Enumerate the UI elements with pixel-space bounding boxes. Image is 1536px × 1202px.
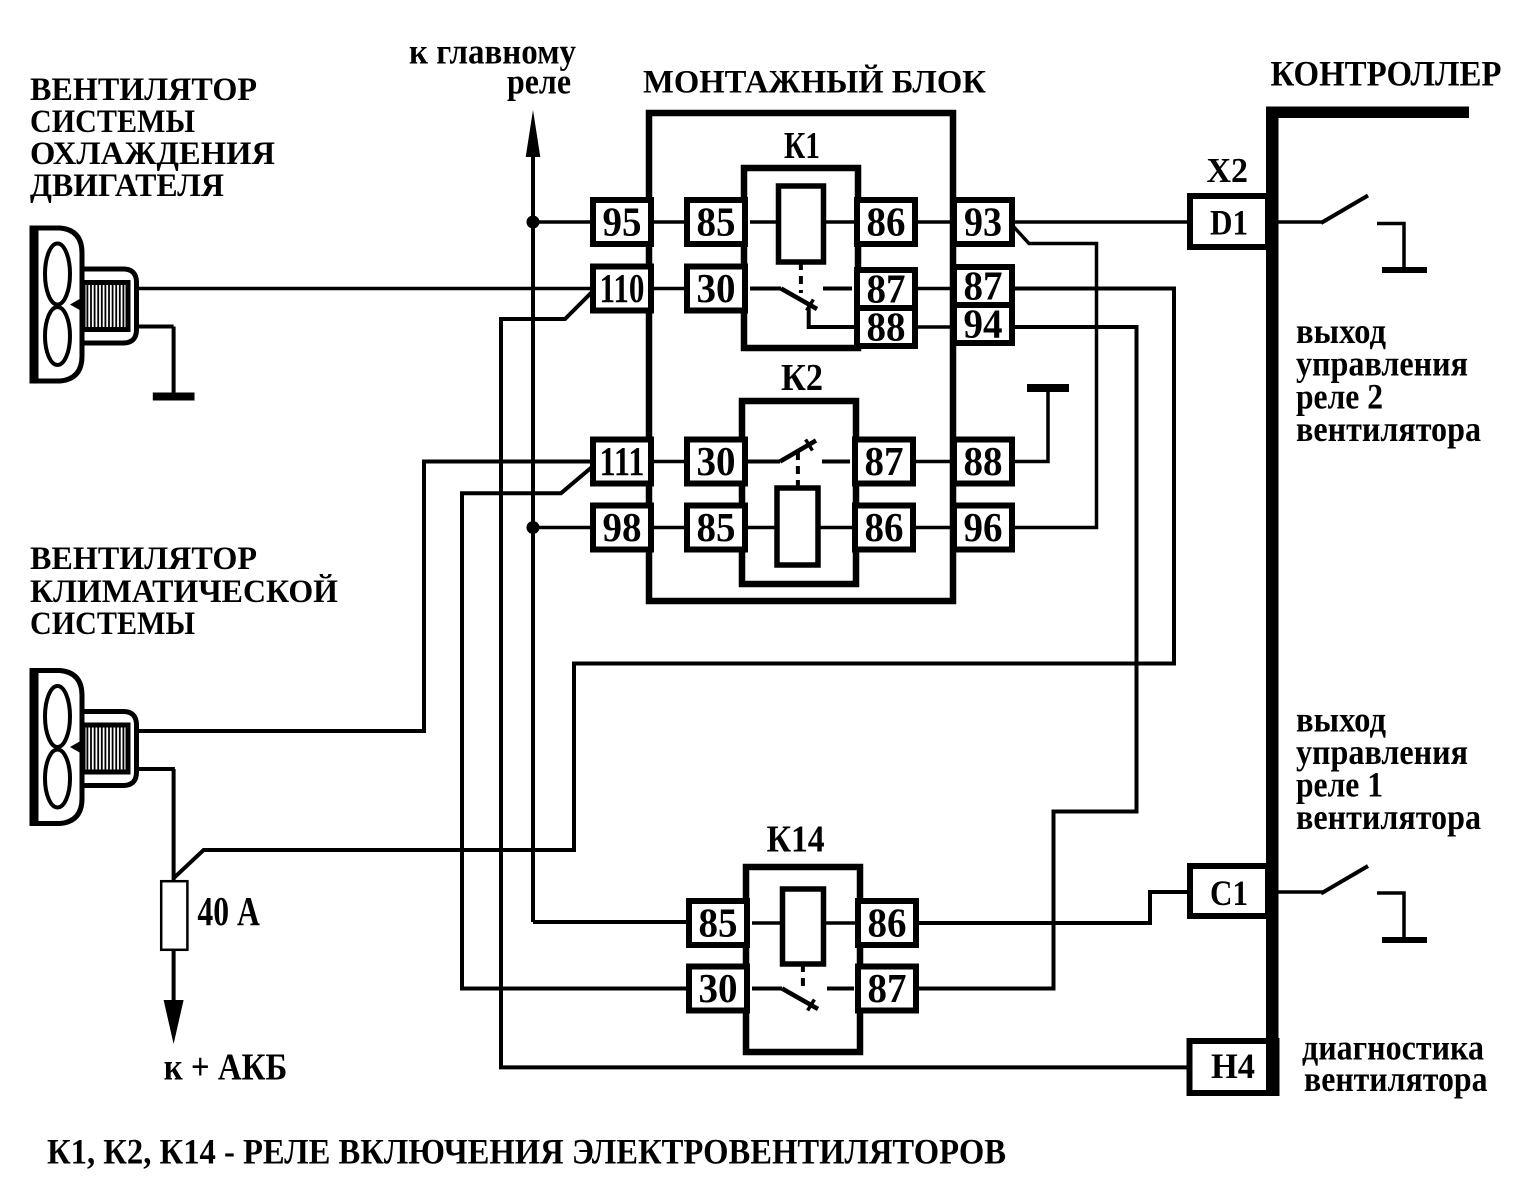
svg-text:ВЕНТИЛЯТОР: ВЕНТИЛЯТОР <box>30 541 257 577</box>
wire: K14 fixed contact 87 stub <box>827 987 858 991</box>
controller D1 switch blade <box>1321 196 1368 224</box>
K1 blade tick <box>807 300 814 311</box>
wire: 110 to 30 (K1) <box>650 287 688 291</box>
K1 coil row inside <box>750 220 858 224</box>
svg-text:вентилятора: вентилятора <box>1304 1059 1488 1099</box>
wire: pin 110 to controller H4 (fan diagnostics) <box>501 291 1192 1067</box>
wire: 87 to 87 outer <box>914 287 955 291</box>
K14 pin 86 <box>858 899 916 945</box>
connector pin C1 <box>1190 866 1268 916</box>
K2 pin 86 <box>855 504 913 550</box>
svg-text:К1, К2, К14 - РЕЛЕ ВКЛЮЧЕНИЯ Э: К1, К2, К14 - РЕЛЕ ВКЛЮЧЕНИЯ ЭЛЕКТРОВЕНТ… <box>47 1132 1006 1172</box>
svg-text:МОНТАЖНЫЙ БЛОК: МОНТАЖНЫЙ БЛОК <box>643 64 986 101</box>
K14 pin 30 <box>689 965 747 1011</box>
wire: 95 to 85 (K1) <box>650 220 688 224</box>
arrowhead to main relay <box>526 110 541 157</box>
wire: 93 to 96 link <box>1011 226 1097 528</box>
pin 110 <box>593 265 651 311</box>
svg-text:реле: реле <box>507 62 571 102</box>
K1 pin 87 <box>857 265 915 311</box>
K2 switch common inside <box>748 460 780 464</box>
wire: main feed to K14 pin85 <box>533 920 690 924</box>
wire: 88 outer to ground <box>1011 392 1048 462</box>
svg-text:96: 96 <box>964 504 1003 550</box>
K14 switch blade <box>782 989 818 1010</box>
svg-text:87: 87 <box>865 438 904 484</box>
wire: feed junction to pin 95 <box>533 220 594 224</box>
montage block (МОНТАЖНЫЙ БЛОК) outline <box>649 113 953 601</box>
svg-text:вентилятора: вентилятора <box>1296 409 1481 449</box>
K14 coil <box>783 889 824 964</box>
svg-text:85: 85 <box>697 198 736 244</box>
svg-text:93: 93 <box>964 198 1002 244</box>
svg-text:X2: X2 <box>1207 152 1249 190</box>
svg-text:88: 88 <box>964 438 1003 484</box>
wire: 98 to 85 (K2) <box>650 526 688 530</box>
svg-text:88: 88 <box>867 303 906 349</box>
svg-text:30: 30 <box>699 965 738 1011</box>
svg-text:К1: К1 <box>784 125 820 167</box>
K2 coil row inside <box>748 526 856 530</box>
K14 switch common inside <box>752 987 782 991</box>
svg-text:85: 85 <box>699 899 738 945</box>
contact bar at D1 switch <box>1382 267 1427 273</box>
wire: 94 to K14 pin 87 <box>916 327 1137 989</box>
svg-text:85: 85 <box>697 504 736 550</box>
wire: K14 86 to controller C1 <box>916 892 1192 923</box>
pin 111 <box>593 438 651 484</box>
svg-text:СИСТЕМЫ: СИСТЕМЫ <box>30 606 195 642</box>
junction dot at 95 feed <box>527 216 540 229</box>
K14 coil row inside <box>752 921 858 925</box>
controller C1 switch contact <box>1377 893 1404 938</box>
wire: down to ground bar <box>172 327 176 395</box>
pin 87 outer <box>954 262 1012 308</box>
wire: fan1 motor to pin 110 <box>130 287 594 291</box>
controller top bar <box>1266 107 1469 119</box>
svg-text:30: 30 <box>697 265 736 311</box>
K2 blade tick <box>806 440 813 451</box>
wire: 86 to 96 <box>912 526 955 530</box>
svg-text:86: 86 <box>865 504 904 550</box>
fan symbol: climate system fan (вентилятор климатической системы) <box>30 668 137 826</box>
K14 fixed contact inside <box>827 987 854 991</box>
wire: fan2 motor to pin 111 <box>130 462 594 732</box>
wire: fan1 motor to ground <box>130 325 174 329</box>
fuse 40 A symbol <box>161 881 187 950</box>
wire: K2 fixed contact 87 stub <box>822 460 856 464</box>
svg-text:D1: D1 <box>1210 203 1248 243</box>
K1 actuator dashed link <box>799 262 803 293</box>
svg-text:40 А: 40 А <box>197 888 260 934</box>
K2 pin 85 <box>687 504 745 550</box>
svg-text:94: 94 <box>964 300 1003 346</box>
K2 pin 30 <box>687 438 745 484</box>
svg-text:к + АКБ: к + АКБ <box>164 1047 288 1089</box>
K14 blade tick <box>808 1000 815 1011</box>
ground bar below fan1 <box>153 393 195 401</box>
wire: fuse to battery arrow <box>172 947 176 1003</box>
svg-text:H4: H4 <box>1211 1046 1255 1086</box>
svg-text:КЛИМАТИЧЕСКОЙ: КЛИМАТИЧЕСКОЙ <box>30 573 338 610</box>
svg-text:К2: К2 <box>781 357 823 399</box>
K2 actuator dashed link <box>796 452 800 488</box>
pin 88 outer <box>954 438 1012 484</box>
K1 coil <box>779 186 824 262</box>
K1 blade to pin 88 wire <box>809 307 857 327</box>
connector pin H4 <box>1190 1041 1277 1093</box>
controller C1 internal switch stub <box>1278 890 1323 894</box>
wire: K14 coil row <box>747 921 858 925</box>
wire: feed junction to pin 98 <box>533 526 594 530</box>
wire: main relay feed vertical (к главному реле) <box>531 126 535 922</box>
controller D1 internal switch stub <box>1278 220 1323 224</box>
svg-text:C1: C1 <box>1210 873 1248 913</box>
ground bar in montage area <box>1027 384 1069 392</box>
K1 switch blade <box>781 289 817 310</box>
K2 switch blade <box>780 441 816 462</box>
wire: fan2 motor lower to fuse <box>130 767 175 771</box>
pin 94 <box>954 300 1012 346</box>
wire: K1 switch common stub <box>744 287 781 291</box>
wire: 93 to controller D1 <box>1011 220 1192 224</box>
arrowhead к + АКБ <box>164 1000 184 1044</box>
svg-text:СИСТЕМЫ: СИСТЕМЫ <box>30 104 195 140</box>
svg-text:ОХЛАЖДЕНИЯ: ОХЛАЖДЕНИЯ <box>30 136 275 172</box>
K1 switch common inside <box>750 287 781 291</box>
controller (КОНТРОЛЛЕР) vertical bus bar <box>1266 107 1279 1093</box>
relay K14 body <box>746 867 860 1052</box>
relay K2 body <box>742 401 856 584</box>
wire: battery + feed from fuse to K1 pin 87 (outer) <box>174 289 1174 879</box>
wire: 111 to 30 (K2) <box>650 460 688 464</box>
wire: K1 coil row <box>744 220 858 224</box>
K14 pin 87 <box>858 965 916 1011</box>
K1 pin 88 <box>857 303 915 349</box>
fan symbol: engine cooling fan (вентилятор системы охлаждения) <box>30 226 137 384</box>
pin 93 <box>954 198 1012 244</box>
K2 fixed contact inside <box>822 460 850 464</box>
K1 pin 85 <box>687 198 745 244</box>
svg-text:ВЕНТИЛЯТОР: ВЕНТИЛЯТОР <box>30 72 257 108</box>
K1 pin 86 <box>857 198 915 244</box>
wire: K1 fixed contact 87 stub <box>823 287 858 291</box>
svg-text:ДВИГАТЕЛЯ: ДВИГАТЕЛЯ <box>30 168 224 204</box>
wire: K2 switch common stub <box>744 460 780 464</box>
svg-text:111: 111 <box>600 438 645 484</box>
pin 98 <box>593 504 651 550</box>
svg-text:110: 110 <box>600 265 645 311</box>
K1 pin 30 <box>687 265 745 311</box>
svg-text:95: 95 <box>603 198 642 244</box>
wire: K14 switch common stub <box>747 987 782 991</box>
svg-text:98: 98 <box>603 504 642 550</box>
pin 96 <box>954 504 1012 550</box>
contact bar at C1 switch <box>1382 937 1427 943</box>
wire: K2 coil row <box>744 526 856 530</box>
svg-text:86: 86 <box>867 198 906 244</box>
svg-text:вентилятора: вентилятора <box>1296 797 1481 837</box>
svg-text:86: 86 <box>868 899 907 945</box>
wire: pin 111 to K14 pin 30 <box>462 467 690 989</box>
svg-text:К14: К14 <box>767 819 825 861</box>
K14 actuator dashed link <box>801 964 805 986</box>
svg-text:КОНТРОЛЛЕР: КОНТРОЛЛЕР <box>1271 54 1502 94</box>
wire: down to fuse <box>172 769 176 883</box>
controller C1 switch blade <box>1321 866 1368 894</box>
svg-text:87: 87 <box>868 965 907 1011</box>
K2 pin 87 <box>855 438 913 484</box>
relay K1 body <box>744 168 858 348</box>
controller bus bar overlay <box>1266 107 1279 1093</box>
junction dot at 98 feed <box>527 521 540 534</box>
wire: 87 to 88 outer (K2) <box>912 460 955 464</box>
K14 pin 85 <box>689 899 747 945</box>
wire: 88 to 94 <box>914 325 955 329</box>
controller D1 switch contact <box>1377 224 1404 269</box>
pin 95 <box>593 198 651 244</box>
K1 fixed contact inside <box>823 287 852 291</box>
connector X2 pin D1 <box>1190 196 1268 247</box>
K2 coil <box>777 488 818 565</box>
svg-text:30: 30 <box>697 438 736 484</box>
wire: 86 to 93 <box>914 220 955 224</box>
